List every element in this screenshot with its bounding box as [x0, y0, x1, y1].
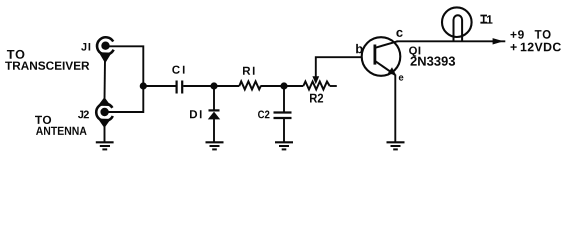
capacitor C1 [177, 81, 183, 94]
label 2N3393 [411, 57, 456, 66]
wire J2 pin to node A [105, 86, 143, 112]
label R1 [243, 67, 255, 75]
label C2 [258, 111, 270, 119]
wire node B to R1 [214, 85, 239, 87]
label c (collector) [396, 30, 402, 37]
label +9 TO [511, 30, 551, 39]
wire R1 to node C [261, 85, 284, 87]
wire node B to D1 [213, 86, 215, 110]
R2 open stub wire [330, 85, 337, 87]
potentiometer R2 element [303, 82, 329, 90]
label Q1 [409, 47, 420, 57]
wire node C to R2 [284, 85, 303, 87]
node A junction [140, 82, 147, 89]
transistor Q1 [362, 37, 401, 76]
label R2 [310, 94, 323, 103]
wire node C to C2 [283, 86, 285, 112]
wire Q1 emitter to ground [394, 75, 396, 142]
ground below D1 [206, 142, 224, 149]
label TRANSCEIVER [5, 62, 89, 70]
supply arrowhead [493, 38, 504, 44]
diode D1 [208, 110, 220, 119]
node B junction [210, 82, 217, 89]
wire J1 shell to J2 shell [104, 59, 107, 100]
label TO (transceiver line 1) [7, 50, 25, 59]
wire J2 shell to ground [104, 125, 106, 142]
wire D1 to ground [213, 119, 215, 142]
label D1 [190, 110, 202, 118]
connector J1 [97, 37, 114, 61]
lamp I1 [442, 7, 472, 41]
ground below Q1 emitter [387, 142, 405, 149]
label ANTENNA [36, 127, 87, 135]
label TO (antenna line 1) [35, 116, 51, 124]
resistor R1 [239, 81, 261, 89]
R2 wiper arrow and wire to Q1 base [312, 57, 361, 84]
label C1 [172, 66, 184, 74]
label J1 [81, 43, 90, 51]
label J2 [78, 111, 89, 119]
wire C2 to ground [283, 119, 285, 142]
ground below C2 [275, 142, 293, 149]
capacitor C2 [274, 113, 292, 119]
wire J1 pin to node A [106, 46, 143, 86]
label e (emitter) [399, 75, 404, 80]
wire Q1 collector to supply arrow [397, 40, 506, 42]
wire node A to C1 [143, 85, 175, 87]
wire C1 to node B [183, 85, 214, 87]
ground below J2 [96, 142, 114, 149]
label I1 [480, 15, 492, 24]
label b (base) [356, 44, 363, 53]
node C junction [280, 82, 287, 89]
connector J2 [96, 99, 113, 127]
label +12VDC [511, 43, 561, 52]
